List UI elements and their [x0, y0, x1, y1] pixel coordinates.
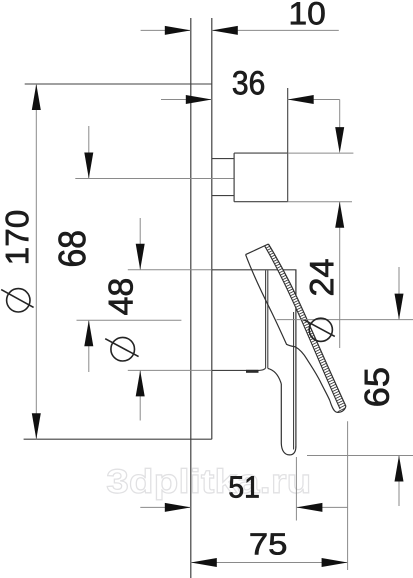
75 right ext — [347, 421, 349, 570]
axis line valve (68 top ref) — [75, 178, 233, 180]
cartridge box — [233, 153, 235, 202]
grip right edge outer — [295, 270, 297, 448]
hub bottom thick detail — [246, 370, 259, 373]
dim 68 arrows — [88, 126, 90, 179]
axis line handle left (68/65 ref) — [77, 319, 182, 321]
diameter symbol for 24 — [304, 318, 334, 341]
grip fillet — [268, 368, 282, 384]
dim 75 line — [191, 562, 348, 564]
diameter symbol for 170 — [1, 289, 33, 312]
plate face — [211, 18, 213, 439]
handle bottom ext (65 ref) — [307, 455, 413, 457]
label 24 — [310, 260, 333, 295]
label 10 — [291, 2, 324, 25]
label 36 — [233, 71, 264, 95]
label 65 — [364, 368, 389, 405]
wall line — [190, 18, 192, 578]
connector top — [212, 158, 234, 160]
hub right edge double line — [265, 270, 267, 368]
hub top edge + ext line — [128, 269, 212, 271]
lever outer edge — [268, 244, 346, 406]
lever band inner edge — [265, 246, 341, 409]
dim 51 line — [140, 506, 191, 508]
watermark 3dplitka.ru — [107, 468, 308, 500]
lever lower-left edge — [246, 255, 330, 401]
grip stem left edge — [280, 384, 282, 444]
plate bottom edge / ext — [24, 438, 212, 440]
hub bottom edge + ext line — [128, 369, 212, 371]
label 51 — [230, 476, 259, 497]
dim 24 leader — [339, 100, 341, 129]
51 right ext — [295, 457, 297, 521]
box bottom extension — [288, 201, 352, 203]
dim 170 line — [35, 84, 37, 439]
label 75 — [251, 533, 286, 554]
lever hatched band — [265, 244, 346, 412]
dim 65 arrows — [398, 267, 400, 320]
dim 36 line — [161, 99, 212, 101]
lever end cap — [246, 244, 269, 255]
connector bottom — [212, 195, 234, 197]
grip bottom cap — [281, 444, 296, 455]
label 48 — [108, 279, 132, 314]
lever tip arc — [330, 401, 346, 413]
label 170 — [6, 211, 29, 263]
grip right edge inner — [293, 312, 295, 450]
diameter symbol for 48 — [105, 337, 138, 361]
plate top edge / ext — [25, 83, 212, 85]
label 68 — [59, 231, 86, 265]
dim 10 line — [141, 29, 191, 31]
axis line handle right — [277, 319, 413, 321]
dim 48 arrows — [139, 218, 141, 270]
box top extension — [288, 152, 354, 154]
